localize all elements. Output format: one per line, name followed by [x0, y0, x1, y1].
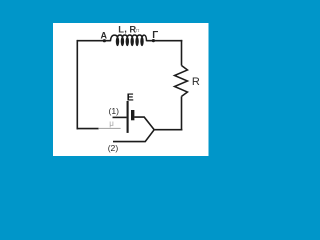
switch throw to contact 1 — [134, 117, 154, 130]
node Γ — [152, 30, 159, 42]
resistor R — [175, 66, 200, 97]
svg-text:A: A — [100, 30, 107, 40]
switch throw to contact 2 — [113, 130, 154, 142]
svg-text:E: E — [127, 92, 134, 103]
svg-text:(2): (2) — [108, 143, 119, 153]
wire contact 1 to battery — [113, 116, 127, 118]
svg-text:(1): (1) — [109, 106, 120, 116]
wire left — [76, 40, 78, 129]
node A — [100, 30, 107, 42]
wire top-left segment — [77, 40, 110, 42]
svg-text:Γ: Γ — [152, 30, 158, 41]
label (2) — [108, 143, 119, 153]
svg-text:μ: μ — [109, 119, 114, 128]
wire top-right segment — [147, 40, 183, 42]
label (1) — [109, 106, 120, 116]
svg-text:,: , — [124, 23, 127, 34]
svg-text:R: R — [192, 76, 200, 88]
inductor L,Rπ — [110, 35, 146, 46]
battery E — [127, 92, 134, 133]
wire right upper — [181, 40, 183, 66]
svg-text:π: π — [136, 28, 140, 34]
label L , Rπ — [118, 23, 139, 34]
switch blade μ (gray, open) — [98, 119, 120, 128]
wire right lower — [181, 96, 183, 130]
wire bottom-right — [154, 129, 182, 131]
wire bottom-left — [77, 128, 99, 130]
